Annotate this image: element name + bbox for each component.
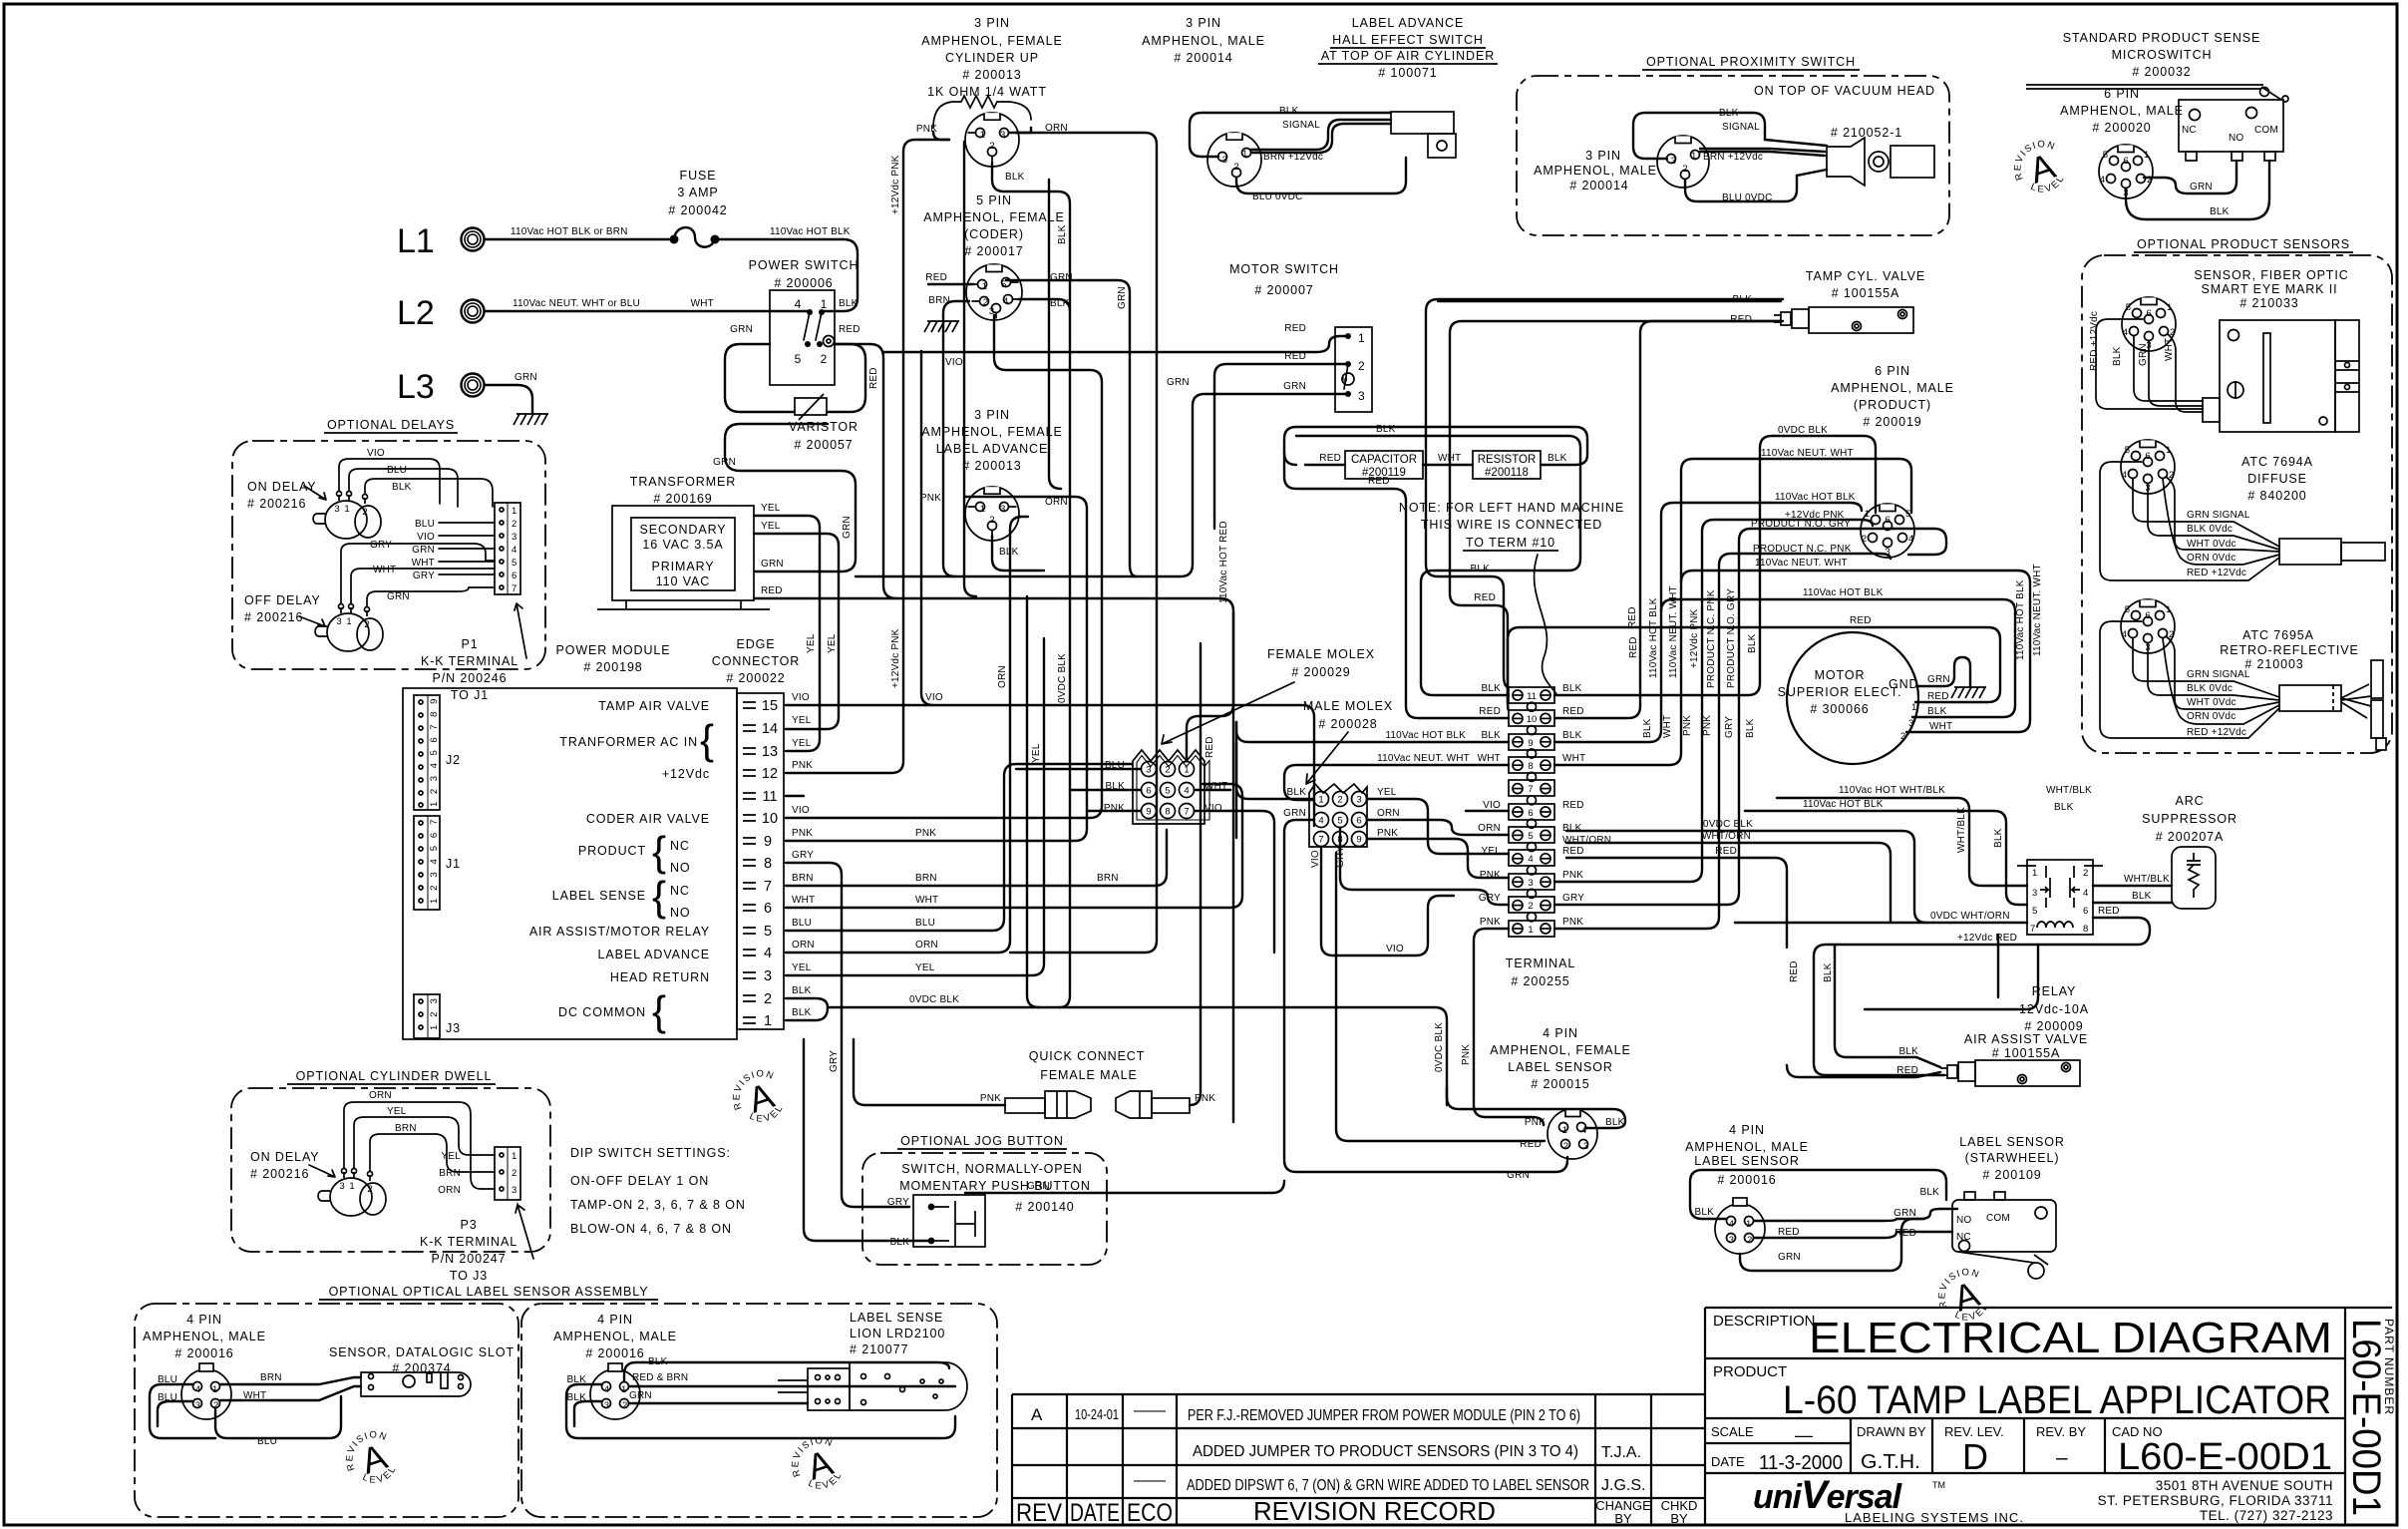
- motor BLK wire: [1661, 599, 2015, 717]
- svg-text:5: 5: [1337, 816, 1342, 827]
- svg-text:7: 7: [764, 879, 772, 895]
- svg-text:NO: NO: [670, 861, 691, 875]
- svg-text:3: 3: [1729, 1235, 1734, 1246]
- svg-text:# 100071: # 100071: [1378, 66, 1437, 80]
- wires prox: [1700, 149, 1825, 156]
- svg-text:PNK: PNK: [915, 828, 936, 839]
- svg-text:WHT: WHT: [1478, 753, 1501, 764]
- svg-text:8: 8: [1165, 807, 1170, 818]
- svg-text:VIO: VIO: [945, 357, 963, 368]
- svg-text:DATE: DATE: [1070, 1499, 1120, 1527]
- svg-text:CONNECTOR: CONNECTOR: [712, 654, 800, 668]
- svg-text:110Vac NEUT. WHT: 110Vac NEUT. WHT: [1377, 753, 1470, 764]
- svg-text:3: 3: [1583, 1141, 1588, 1152]
- motor RED wire: [1508, 627, 2000, 710]
- wires 4-pin male to starwheel: [1690, 1170, 1946, 1219]
- svg-text:AMPHENOL, MALE: AMPHENOL, MALE: [1142, 34, 1265, 48]
- svg-text:——: ——: [1134, 1402, 1166, 1419]
- wire BLK vertical to air assist: [1835, 945, 1940, 1067]
- svg-text:GRN: GRN: [1283, 808, 1306, 819]
- svg-text:TRANSFORMER: TRANSFORMER: [630, 475, 736, 489]
- svg-text:CAPACITOR: CAPACITOR: [1351, 454, 1417, 466]
- svg-text:110Vac HOT BLK: 110Vac HOT BLK: [770, 226, 851, 237]
- wire female molex pin1 RED up: [1187, 611, 1233, 761]
- svg-text:WHT/BLK: WHT/BLK: [2046, 785, 2092, 796]
- svg-text:4 PIN: 4 PIN: [186, 1313, 222, 1327]
- svg-text:RED & BRN: RED & BRN: [632, 1372, 688, 1383]
- svg-text:2: 2: [1358, 359, 1365, 373]
- svg-text:EDGE: EDGE: [736, 637, 775, 651]
- svg-text:3: 3: [336, 616, 341, 627]
- svg-text:VIO: VIO: [925, 692, 943, 703]
- svg-text:110Vac HOT BLK: 110Vac HOT BLK: [2015, 579, 2026, 660]
- svg-text:DATE: DATE: [1711, 1454, 1745, 1469]
- svg-text:7: 7: [1318, 835, 1323, 846]
- svg-text:7: 7: [512, 583, 516, 594]
- svg-text:DIFFUSE: DIFFUSE: [2247, 472, 2307, 486]
- svg-text:{: {: [652, 987, 666, 1034]
- svg-text:3: 3: [2032, 888, 2037, 899]
- edge connector function labels: [529, 699, 710, 1019]
- revision stamp top right: [2005, 134, 2072, 203]
- to term 10 squiggle: [1535, 555, 1556, 694]
- svg-text:POWER MODULE: POWER MODULE: [556, 643, 671, 657]
- svg-text:2: 2: [367, 1184, 372, 1195]
- svg-text:9: 9: [1528, 738, 1533, 749]
- svg-text:3: 3: [1528, 878, 1533, 889]
- svg-text:RED: RED: [761, 585, 783, 596]
- svg-text:# 200016: # 200016: [1717, 1173, 1776, 1187]
- svg-text:6: 6: [2146, 308, 2151, 319]
- svg-text:LABEL SENSOR: LABEL SENSOR: [1959, 1135, 2065, 1149]
- svg-text:3 PIN: 3 PIN: [974, 408, 1010, 422]
- svg-text:4: 4: [1528, 854, 1533, 865]
- relay feed wires left: [1566, 831, 1926, 923]
- svg-text:GRN: GRN: [515, 372, 537, 383]
- svg-text:# 200255: # 200255: [1511, 974, 1569, 988]
- svg-text:BLU: BLU: [792, 918, 812, 929]
- svg-text:BLK: BLK: [2112, 346, 2123, 366]
- J3 connector: [414, 994, 440, 1038]
- svg-text:3 PIN: 3 PIN: [1186, 16, 1221, 30]
- svg-text:BRN: BRN: [1097, 873, 1119, 884]
- wire coder BRN to ground: [943, 301, 969, 320]
- svg-text:6: 6: [1146, 786, 1151, 797]
- svg-text:9: 9: [1356, 835, 1361, 846]
- svg-text:RED: RED: [1896, 1065, 1918, 1076]
- svg-text:12: 12: [762, 766, 778, 782]
- svg-text:RED: RED: [1368, 476, 1390, 487]
- wire 110Vac HOT BLK to product: [1554, 503, 1862, 742]
- svg-text:BLK: BLK: [1898, 1046, 1918, 1057]
- svg-text:3501 8TH AVENUE SOUTH: 3501 8TH AVENUE SOUTH: [2156, 1478, 2333, 1493]
- svg-text:RED: RED: [1319, 453, 1341, 464]
- svg-text:GRY: GRY: [1479, 893, 1501, 904]
- svg-text:7: 7: [2030, 924, 2035, 935]
- svg-text:BLK: BLK: [1279, 106, 1299, 117]
- svg-text:1: 1: [2166, 445, 2171, 456]
- svg-text:# 200109: # 200109: [1982, 1168, 2041, 1182]
- svg-text:# 200198: # 200198: [583, 660, 642, 674]
- svg-text:SCALE: SCALE: [1711, 1424, 1754, 1439]
- svg-text:3: 3: [1000, 130, 1005, 141]
- svg-text:0VDC BLK: 0VDC BLK: [909, 994, 959, 1005]
- svg-text:GRN: GRN: [1117, 286, 1128, 309]
- svg-text:3: 3: [512, 1185, 516, 1196]
- wire relay to arc suppressor BLK: [2093, 902, 2172, 904]
- svg-text:110Vac HOT BLK: 110Vac HOT BLK: [1648, 597, 1659, 678]
- svg-text:GRN SIGNAL: GRN SIGNAL: [2187, 669, 2250, 680]
- svg-text:BLK: BLK: [792, 1007, 812, 1018]
- svg-text:ORN: ORN: [792, 940, 815, 951]
- svg-text:2: 2: [1900, 731, 1905, 742]
- svg-text:J2: J2: [446, 753, 461, 767]
- svg-text:RED: RED: [925, 272, 947, 283]
- svg-text:GRN: GRN: [1167, 377, 1190, 388]
- svg-text:2: 2: [364, 619, 369, 630]
- svg-text:6: 6: [1356, 816, 1361, 827]
- svg-text:1: 1: [621, 1384, 626, 1395]
- svg-text:SMART EYE MARK II: SMART EYE MARK II: [2201, 282, 2337, 296]
- wire 110Vac HOT WHT/BLK to relay: [1777, 798, 2027, 886]
- svg-text:# 200015: # 200015: [1531, 1077, 1589, 1091]
- svg-text:MOTOR: MOTOR: [1815, 668, 1866, 682]
- wire power switch RED down: [835, 344, 896, 598]
- revision stamp right optical: [783, 1430, 850, 1500]
- svg-text:0VDC BLK: 0VDC BLK: [1703, 819, 1753, 830]
- svg-text:5: 5: [1165, 786, 1170, 797]
- svg-text:GRY: GRY: [829, 1050, 840, 1072]
- svg-text:7: 7: [1528, 784, 1533, 795]
- svg-text:RETRO-REFLECTIVE: RETRO-REFLECTIVE: [2220, 643, 2358, 657]
- svg-text:(PRODUCT): (PRODUCT): [1854, 398, 1931, 412]
- svg-text:CODER AIR VALVE: CODER AIR VALVE: [586, 812, 710, 826]
- svg-text:BLK: BLK: [1470, 564, 1490, 574]
- svg-text:GRN: GRN: [761, 559, 784, 570]
- svg-text:8: 8: [764, 856, 772, 872]
- svg-text:SWITCH, NORMALLY-OPEN: SWITCH, NORMALLY-OPEN: [901, 1162, 1082, 1176]
- svg-text:3: 3: [604, 1400, 609, 1411]
- svg-text:YEL: YEL: [761, 521, 781, 532]
- svg-text:ST. PETERSBURG, FLORIDA 337: ST. PETERSBURG, FLORIDA 33711: [2098, 1493, 2333, 1508]
- svg-text:5: 5: [1001, 279, 1006, 290]
- svg-text:5: 5: [1905, 509, 1910, 520]
- svg-text:TO J3: TO J3: [450, 1269, 488, 1283]
- svg-text:RED: RED: [1562, 706, 1584, 717]
- wire 0VDC WHT/ORN to relay: [1735, 922, 2027, 924]
- svg-text:5: 5: [1528, 831, 1533, 842]
- svg-text:6: 6: [2145, 451, 2150, 462]
- svg-text:2: 2: [512, 1168, 516, 1179]
- svg-text:THIS WIRE IS CONNECTED: THIS WIRE IS CONNECTED: [1421, 518, 1602, 532]
- svg-text:110Vac NEUT. WHT: 110Vac NEUT. WHT: [1761, 448, 1854, 459]
- svg-text:LION LRD2100: LION LRD2100: [850, 1327, 945, 1340]
- svg-text:WHT: WHT: [1662, 715, 1673, 738]
- terminal left labels: [1478, 683, 1502, 928]
- svg-text:PNK: PNK: [916, 124, 937, 135]
- svg-text:DESCRIPTION: DESCRIPTION: [1713, 1313, 1816, 1330]
- svg-text:1: 1: [1528, 925, 1533, 936]
- svg-text:ORN: ORN: [1045, 497, 1068, 508]
- svg-text:2: 2: [622, 1400, 627, 1411]
- svg-text:NOTE: FOR LEFT HAND MACHIN: NOTE: FOR LEFT HAND MACHINE: [1399, 501, 1624, 515]
- terminal right labels: [1562, 683, 1611, 928]
- svg-text:VIO: VIO: [1386, 944, 1404, 955]
- svg-text:10: 10: [1527, 714, 1538, 725]
- wire BLK to COM: [2126, 161, 2269, 219]
- svg-text:L60-E-00D1: L60-E-00D1: [2344, 1319, 2388, 1516]
- wire relay RED +12Vdc loop: [1814, 918, 2150, 1075]
- svg-text:ORN 0Vdc: ORN 0Vdc: [2187, 711, 2236, 722]
- svg-text:RED: RED: [1894, 1228, 1916, 1239]
- svg-text:GND: GND: [1889, 677, 1918, 691]
- svg-text:WHT: WHT: [915, 895, 938, 906]
- svg-text:D: D: [1962, 1436, 1988, 1477]
- svg-text:ATC 7694A: ATC 7694A: [2241, 455, 2313, 469]
- wire terminal 9 BLK left long: [1236, 722, 1509, 838]
- svg-text:RED: RED: [1562, 846, 1584, 857]
- svg-text:RED: RED: [1628, 636, 1639, 658]
- svg-text:DC COMMON: DC COMMON: [558, 1005, 646, 1019]
- svg-text:RED: RED: [868, 367, 879, 389]
- svg-text:# 200042: # 200042: [668, 203, 727, 217]
- svg-text:RED: RED: [1204, 736, 1215, 758]
- svg-text:ORN: ORN: [1377, 808, 1400, 819]
- svg-text:SUPERIOR ELECT.: SUPERIOR ELECT.: [1778, 685, 1902, 699]
- svg-text:1: 1: [821, 297, 828, 311]
- svg-text:3: 3: [334, 504, 339, 515]
- svg-text:DIP SWITCH SETTINGS:: DIP SWITCH SETTINGS:: [570, 1146, 731, 1160]
- svg-text:LABEL ADVANCE: LABEL ADVANCE: [936, 442, 1048, 456]
- svg-text:# 200140: # 200140: [1015, 1200, 1074, 1214]
- svg-text:4: 4: [1318, 816, 1323, 827]
- svg-text:9: 9: [1146, 807, 1151, 818]
- wire 110Vac NEUT WHT to product: [1554, 459, 1911, 765]
- svg-text:HALL EFFECT SWITCH: HALL EFFECT SWITCH: [1332, 33, 1484, 47]
- svg-text:2: 2: [989, 141, 994, 152]
- svg-text:4: 4: [195, 1384, 200, 1395]
- svg-text:4: 4: [2122, 629, 2127, 640]
- wire row12 PNK to cylinder-up connector: [786, 140, 949, 773]
- svg-text:AIR ASSIST/MOTOR RELAY: AIR ASSIST/MOTOR RELAY: [529, 925, 710, 939]
- svg-text:TAMP AIR VALVE: TAMP AIR VALVE: [598, 699, 710, 713]
- svg-text:P/N 200247: P/N 200247: [431, 1252, 506, 1266]
- svg-text:NC: NC: [2182, 125, 2197, 136]
- svg-text:RED: RED: [1627, 606, 1638, 628]
- svg-text:2: 2: [1563, 1141, 1568, 1152]
- svg-text:REV. BY: REV. BY: [2036, 1424, 2086, 1439]
- svg-text:GRN SIGNAL: GRN SIGNAL: [2187, 510, 2250, 521]
- svg-text:1: 1: [349, 1181, 354, 1192]
- svg-text:3: 3: [1671, 156, 1676, 167]
- svg-text:# 210052-1: # 210052-1: [1831, 126, 1902, 140]
- svg-text:{: {: [700, 716, 714, 763]
- svg-text:TEL. (727) 327-2123: TEL. (727) 327-2123: [2200, 1508, 2333, 1523]
- svg-text:BRN: BRN: [792, 873, 814, 884]
- wires on-delay to P1: [339, 459, 493, 507]
- svg-text:BLK: BLK: [1057, 224, 1068, 244]
- svg-text:RED: RED: [1479, 706, 1501, 717]
- svg-text:TO J1: TO J1: [451, 688, 489, 702]
- svg-text:YEL: YEL: [915, 962, 935, 973]
- svg-text:123: 123: [429, 990, 440, 1030]
- wire transformer YEL 1: [754, 516, 820, 751]
- svg-text:3: 3: [1356, 795, 1361, 806]
- svg-text:RED: RED: [1778, 1227, 1800, 1238]
- svg-text:RED: RED: [1284, 323, 1306, 334]
- svg-text:110Vac NEUT. WHT: 110Vac NEUT. WHT: [1755, 558, 1848, 569]
- svg-text:BLK: BLK: [392, 482, 412, 493]
- svg-text:TAMP-ON 2, 3, 6, 7 & 8: TAMP-ON 2, 3, 6, 7 & 8 ON: [570, 1198, 746, 1212]
- svg-text:# 200013: # 200013: [962, 459, 1021, 473]
- wire quick connect right PNK to label sensor: [1190, 643, 1201, 1105]
- svg-text:RED: RED: [1562, 800, 1584, 811]
- svg-text:HEAD RETURN: HEAD RETURN: [610, 970, 710, 984]
- svg-text:BY: BY: [1614, 1511, 1632, 1526]
- svg-text:ADDED DIPSWT 6, 7 (ON) & GRN W: ADDED DIPSWT 6, 7 (ON) & GRN WIRE ADDED …: [1187, 1477, 1589, 1494]
- svg-text:PRODUCT: PRODUCT: [578, 844, 646, 858]
- svg-text:COM: COM: [1986, 1213, 2010, 1224]
- svg-text:YEL: YEL: [1481, 846, 1501, 857]
- svg-text:BLK: BLK: [889, 1237, 909, 1248]
- svg-text:# 200057: # 200057: [794, 438, 853, 452]
- svg-text:MOTOR SWITCH: MOTOR SWITCH: [1229, 262, 1339, 276]
- svg-text:1: 1: [344, 504, 349, 515]
- revision stamp power module: [724, 1063, 791, 1133]
- svg-text:# 210033: # 210033: [2239, 296, 2298, 310]
- svg-text:1: 1: [212, 1384, 217, 1395]
- svg-text:BRN: BRN: [439, 1168, 461, 1179]
- svg-text:LABEL ADVANCE: LABEL ADVANCE: [598, 948, 710, 961]
- motor WHT wire: [1681, 571, 2030, 732]
- svg-text:# 200028: # 200028: [1318, 717, 1377, 731]
- wire 110Vac HOT BLK to relay: [1745, 811, 2027, 905]
- svg-text:1: 1: [980, 504, 985, 515]
- svg-text:2: 2: [512, 519, 516, 530]
- svg-text:+12Vdc PNK: +12Vdc PNK: [890, 628, 901, 688]
- svg-text:——: ——: [1134, 1472, 1166, 1489]
- motor GND wire to ground: [1916, 657, 1970, 686]
- svg-text:RESISTOR: RESISTOR: [1478, 454, 1537, 466]
- svg-text:6: 6: [764, 901, 772, 917]
- svg-text:1: 1: [2144, 150, 2149, 161]
- svg-text:SUPPRESSOR: SUPPRESSOR: [2142, 812, 2237, 826]
- svg-text:4: 4: [604, 1384, 609, 1395]
- svg-text:# 210077: # 210077: [850, 1342, 908, 1356]
- wires hall effect: [1250, 120, 1391, 153]
- svg-text:BLK: BLK: [1562, 730, 1582, 741]
- svg-text:AMPHENOL, FEMALE: AMPHENOL, FEMALE: [923, 210, 1065, 224]
- svg-text:2: 2: [1862, 534, 1867, 545]
- svg-text:2: 2: [1682, 164, 1687, 175]
- svg-text:5: 5: [2103, 150, 2108, 161]
- svg-text:RED: RED: [1789, 960, 1800, 982]
- svg-text:13: 13: [762, 744, 778, 760]
- svg-text:A: A: [1031, 1405, 1043, 1424]
- svg-text:BLK: BLK: [2132, 891, 2152, 902]
- svg-text:0VDC BLK: 0VDC BLK: [1778, 425, 1828, 436]
- svg-text:AMPHENOL, FEMALE: AMPHENOL, FEMALE: [921, 34, 1063, 48]
- svg-text:1: 1: [2167, 302, 2172, 313]
- svg-text:1: 1: [1242, 149, 1247, 160]
- svg-text:BLK: BLK: [2054, 802, 2074, 813]
- ATC 7694A diffuse: [2121, 440, 2175, 494]
- svg-text:(STARWHEEL): (STARWHEEL): [1965, 1151, 2060, 1165]
- svg-text:WHT/BLK: WHT/BLK: [2124, 874, 2170, 885]
- svg-text:3: 3: [1000, 504, 1005, 515]
- wire male molex pin5 RED down: [1336, 828, 1545, 1141]
- svg-text:VIO: VIO: [792, 805, 810, 816]
- svg-text:3: 3: [764, 968, 772, 984]
- svg-text:RED +12Vdc: RED +12Vdc: [2187, 727, 2246, 738]
- svg-text:BLK: BLK: [792, 985, 812, 996]
- svg-text:YEL: YEL: [441, 1151, 461, 1162]
- svg-text:ON TOP OF VACUUM HEAD: ON TOP OF VACUUM HEAD: [1754, 84, 1935, 98]
- svg-text:4 PIN: 4 PIN: [1543, 1026, 1578, 1040]
- capacitor #200119: [1345, 451, 1423, 479]
- svg-text:10: 10: [762, 811, 778, 827]
- svg-text:ON DELAY: ON DELAY: [250, 1150, 320, 1164]
- svg-text:BLK: BLK: [2210, 206, 2230, 217]
- svg-text:6: 6: [1528, 808, 1533, 819]
- svg-text:8: 8: [2083, 924, 2088, 935]
- svg-text:TAMP CYL. VALVE: TAMP CYL. VALVE: [1806, 269, 1925, 283]
- svg-text:BLK: BLK: [1919, 1187, 1939, 1198]
- svg-text:0VDC BLK: 0VDC BLK: [1434, 1022, 1445, 1072]
- svg-text:RED: RED: [1730, 314, 1752, 325]
- svg-text:# 200014: # 200014: [1569, 179, 1628, 192]
- svg-text:G.T.H.: G.T.H.: [1861, 1451, 1920, 1473]
- svg-text:1: 1: [982, 281, 987, 292]
- svg-text:16 VAC 3.5A: 16 VAC 3.5A: [642, 538, 723, 552]
- svg-text:REV: REV: [1016, 1499, 1062, 1527]
- svg-text:YEL: YEL: [806, 633, 817, 653]
- svg-text:1: 1: [346, 616, 351, 627]
- svg-text:# 200007: # 200007: [1254, 283, 1313, 297]
- wire coder BLK down: [1018, 299, 1070, 311]
- svg-text:BLK 0Vdc: BLK 0Vdc: [2187, 524, 2233, 535]
- svg-text:# 200009: # 200009: [2024, 1019, 2083, 1033]
- svg-text:MALE MOLEX: MALE MOLEX: [1303, 699, 1393, 713]
- svg-text:YEL: YEL: [761, 503, 781, 514]
- svg-text:FUSE: FUSE: [680, 169, 717, 183]
- svg-text:BLK: BLK: [839, 298, 859, 309]
- svg-text:1: 1: [980, 130, 985, 141]
- hall switch body: [1391, 112, 1456, 158]
- svg-text:1: 1: [764, 1013, 772, 1029]
- svg-text:BLK: BLK: [1562, 823, 1582, 834]
- svg-text:1: 1: [1358, 331, 1365, 345]
- svg-text:ORN: ORN: [1045, 123, 1068, 134]
- svg-text:PRODUCT N.O. GRY: PRODUCT N.O. GRY: [1726, 588, 1737, 688]
- logo universal: [1753, 1473, 2024, 1525]
- svg-text:# 200207A: # 200207A: [2156, 830, 2225, 844]
- svg-text:FEMALE MOLEX: FEMALE MOLEX: [1267, 647, 1375, 661]
- svg-text:3: 3: [1358, 389, 1365, 403]
- wire jog BLK left: [804, 1039, 931, 1241]
- svg-text:OPTIONAL PROXIMITY SWITCH: OPTIONAL PROXIMITY SWITCH: [1646, 55, 1856, 69]
- svg-text:GRN: GRN: [1283, 381, 1306, 392]
- svg-text:BLK: BLK: [1747, 633, 1758, 653]
- svg-text:3: 3: [1222, 155, 1227, 166]
- svg-text:2: 2: [2147, 175, 2152, 186]
- svg-text:# 200029: # 200029: [1291, 665, 1350, 679]
- svg-text:OPTIONAL OPTICAL LABEL SENS: OPTIONAL OPTICAL LABEL SENSOR ASSEMBLY: [329, 1285, 649, 1299]
- svg-text:# 210003: # 210003: [2244, 657, 2303, 671]
- svg-text:AMPHENOL, FEMALE: AMPHENOL, FEMALE: [1490, 1043, 1631, 1057]
- svg-text:REVISION RECORD: REVISION RECORD: [1253, 1496, 1496, 1526]
- svg-text:PNK: PNK: [1562, 917, 1583, 928]
